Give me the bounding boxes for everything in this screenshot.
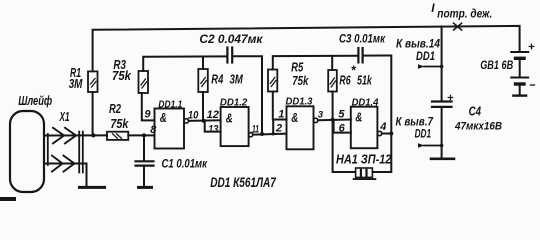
svg-text:DD1.4: DD1.4 — [352, 97, 379, 109]
svg-text:потр. деж.: потр. деж. — [437, 8, 492, 20]
svg-text:C4: C4 — [469, 105, 481, 119]
svg-text:&: & — [355, 109, 362, 124]
svg-text:75k: 75k — [112, 69, 132, 83]
svg-text:3M: 3M — [230, 72, 244, 86]
svg-text:GB1 6В: GB1 6В — [480, 60, 513, 72]
svg-text:6: 6 — [339, 123, 346, 135]
svg-text:К выв.14: К выв.14 — [396, 38, 441, 50]
svg-text:DD1: DD1 — [415, 129, 432, 141]
svg-text:R2: R2 — [109, 102, 121, 116]
svg-text:3: 3 — [318, 109, 324, 120]
svg-text:DD1.2: DD1.2 — [220, 97, 248, 109]
svg-text:&: & — [160, 110, 167, 125]
svg-text:47мкх16В: 47мкх16В — [454, 120, 502, 132]
svg-text:3M: 3M — [69, 77, 83, 91]
svg-text:DD1.3: DD1.3 — [286, 95, 313, 107]
svg-text:5: 5 — [338, 109, 345, 121]
svg-text:C2 0.047мк: C2 0.047мк — [199, 34, 263, 46]
svg-text:13: 13 — [208, 124, 218, 136]
svg-text:R4: R4 — [211, 73, 223, 87]
svg-text:&: & — [291, 110, 298, 125]
svg-text:2: 2 — [275, 122, 282, 134]
svg-text:75k: 75k — [110, 117, 129, 131]
svg-text:X1: X1 — [59, 110, 70, 124]
svg-text:51k: 51k — [357, 74, 373, 88]
svg-text:10: 10 — [188, 110, 199, 122]
svg-text:11: 11 — [252, 124, 259, 136]
svg-text:DD1.1: DD1.1 — [158, 98, 182, 110]
svg-text:&: & — [226, 110, 233, 125]
svg-text:R5: R5 — [291, 61, 304, 75]
svg-text:C3 0.01мк: C3 0.01мк — [339, 34, 386, 46]
svg-text:75k: 75k — [292, 74, 309, 88]
svg-text:DD1 К561ЛА7: DD1 К561ЛА7 — [210, 174, 277, 190]
svg-text:4: 4 — [379, 121, 386, 133]
svg-text:Шлейф: Шлейф — [18, 94, 52, 108]
svg-text:12: 12 — [207, 109, 219, 121]
svg-text:9: 9 — [144, 108, 151, 120]
svg-text:К выв.7: К выв.7 — [396, 116, 434, 128]
svg-text:C1 0.01мк: C1 0.01мк — [162, 158, 208, 170]
svg-text:1: 1 — [278, 109, 284, 121]
svg-text:8: 8 — [150, 124, 157, 136]
svg-text:R6: R6 — [339, 74, 351, 88]
svg-text:HA1 ЗП-12: HA1 ЗП-12 — [336, 152, 391, 166]
svg-text:DD1: DD1 — [416, 51, 435, 63]
